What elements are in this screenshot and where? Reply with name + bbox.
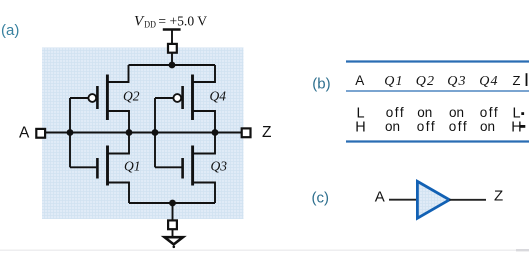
svg-text:off: off [386,105,406,120]
wire ground rail [129,202,215,204]
wire buffer input [389,199,418,201]
wire input riser to Q1 gate [69,133,71,168]
input terminal square [36,129,45,138]
node VDD junction [169,62,176,69]
table header row [355,73,520,89]
svg-text:on: on [385,119,400,134]
svg-text:off: off [417,119,437,134]
wire Q2 drain to node [108,111,129,133]
table middle rule [346,90,529,92]
wire ground stem upper [172,203,174,220]
node input A [67,129,74,136]
transistor Q1 gate bar [96,158,99,179]
transistor Q4 gate bar [181,86,184,109]
wire Q3 drain to node [193,133,215,154]
wire stage2 riser to Q3 gate [154,133,156,168]
ground symbol [165,237,184,244]
svg-text:A: A [19,124,30,141]
wire Q4 drain to node [193,111,215,133]
table row L [356,105,520,122]
svg-text:Z: Z [262,124,271,141]
svg-text:on: on [417,105,432,120]
svg-text:A: A [375,189,385,206]
wire Q2 source to VDD rail [108,65,129,82]
wire ground stem lower [172,229,174,237]
wire buffer output [449,199,486,201]
svg-text:Q1: Q1 [124,159,141,174]
svg-text:off: off [449,119,469,134]
svg-text:off: off [480,105,500,120]
transistor Q3 channel bar [191,146,194,186]
svg-text:Q4: Q4 [210,89,227,104]
output terminal square [242,128,251,137]
table bottom rule [346,140,529,142]
node stage1 output [126,129,133,136]
wire VDD rail [129,64,216,66]
svg-text:(c): (c) [312,189,330,206]
svg-text:Q4: Q4 [479,74,499,89]
svg-text:H: H [355,120,365,136]
transistor Q4 gate bubble [173,94,181,102]
transistor Q2 gate bubble [88,94,96,102]
buffer gate symbol [417,181,449,218]
svg-text:Q2: Q2 [416,74,436,89]
VDD power rail symbol [163,28,181,31]
wire Q4 gate lead [155,97,173,99]
wire VDD stem lower [171,53,173,65]
wire Q1 drain to node [108,133,129,154]
node stage2 input [152,129,159,136]
circuit background box [42,48,244,220]
wire Q2 gate lead [70,97,88,99]
table top rule [346,60,529,62]
svg-text:Z: Z [494,188,503,205]
transistor Q1 channel bar [106,146,109,186]
wire input riser to Q2 gate [69,98,71,133]
svg-text:Z: Z [513,73,521,88]
svg-text:on: on [449,105,464,120]
svg-text:= +5.0 V: = +5.0 V [158,14,207,29]
node ground junction [169,200,176,207]
table row H [355,119,521,136]
svg-text:(b): (b) [312,76,330,93]
ground terminal square [168,220,177,229]
transistor Q3 gate lead [155,166,182,168]
table row L clipped character [521,112,524,115]
VDD terminal square [168,44,177,53]
svg-text:H: H [511,120,521,136]
svg-text:Q2: Q2 [123,89,140,104]
wire VDD stem upper [171,30,173,45]
table row H clipped character [520,125,525,128]
VDD label [134,14,207,31]
svg-text:Q3: Q3 [447,74,467,89]
transistor Q2 channel bar [106,75,109,121]
table header clipped character [526,73,528,86]
svg-text:(a): (a) [1,22,19,39]
wire Q4 source to VDD rail [193,65,215,82]
transistor Q1 gate lead [70,166,96,168]
wire stage2 riser to Q4 gate [154,98,156,133]
svg-text:A: A [355,73,364,88]
node stage2 output [212,129,219,136]
transistor Q4 channel bar [191,75,194,121]
svg-text:Q1: Q1 [384,74,404,89]
wire input-output rail [45,132,242,134]
transistor Q2 gate bar [96,86,99,109]
wire Q3 source to ground rail [193,183,215,204]
wire Q1 source to ground rail [108,183,129,204]
svg-text:DD: DD [144,20,156,30]
svg-text:on: on [480,119,495,134]
page edge line [0,250,529,251]
transistor Q3 gate bar [181,158,184,179]
svg-text:Q3: Q3 [211,159,228,174]
